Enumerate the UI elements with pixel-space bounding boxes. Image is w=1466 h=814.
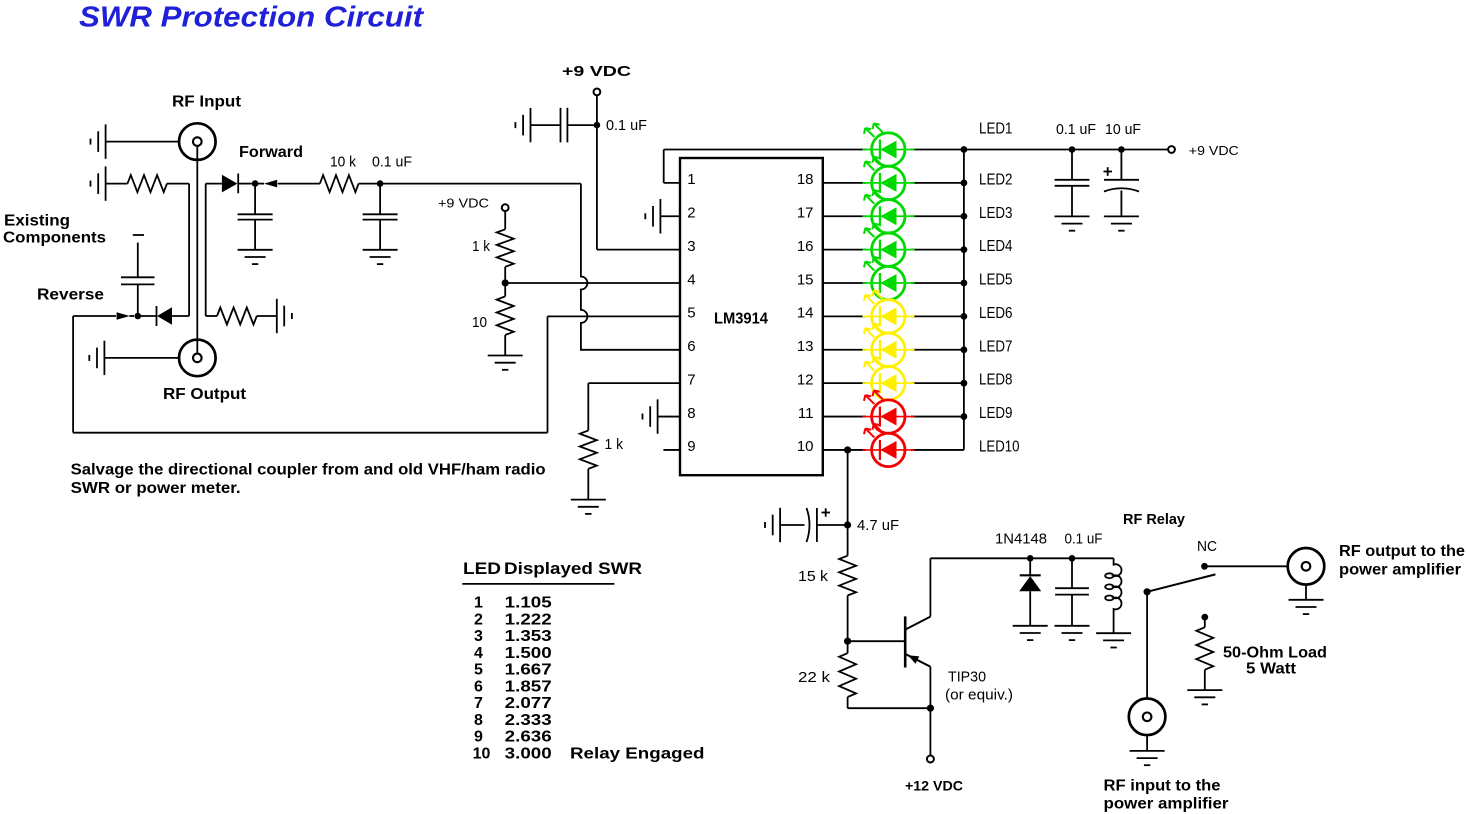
- svg-text:6: 6: [474, 678, 483, 695]
- svg-text:LED2: LED2: [979, 171, 1013, 188]
- svg-text:0.1 uF: 0.1 uF: [1065, 531, 1103, 548]
- svg-text:1: 1: [687, 171, 695, 188]
- svg-text:Displayed SWR: Displayed SWR: [504, 559, 642, 578]
- svg-text:Relay Engaged: Relay Engaged: [570, 745, 705, 762]
- svg-text:10 uF: 10 uF: [1105, 121, 1141, 138]
- svg-text:4: 4: [687, 271, 695, 288]
- svg-text:LED6: LED6: [979, 305, 1013, 322]
- svg-text:5: 5: [474, 662, 483, 679]
- svg-text:15 k: 15 k: [798, 568, 829, 585]
- svg-text:+9 VDC: +9 VDC: [1189, 143, 1239, 158]
- svg-text:RF input to the: RF input to the: [1104, 778, 1221, 795]
- svg-text:LED9: LED9: [979, 405, 1013, 422]
- svg-text:0.1 uF: 0.1 uF: [1056, 121, 1096, 138]
- svg-text:10: 10: [472, 314, 487, 331]
- svg-text:LED7: LED7: [979, 338, 1013, 355]
- svg-text:11: 11: [798, 405, 814, 422]
- svg-text:Forward: Forward: [239, 144, 303, 161]
- svg-text:10: 10: [473, 745, 491, 762]
- svg-text:Salvage the directional couple: Salvage the directional coupler from and…: [71, 462, 546, 479]
- svg-text:7: 7: [474, 695, 483, 712]
- svg-text:0.1 uF: 0.1 uF: [372, 154, 412, 171]
- svg-text:1.857: 1.857: [505, 678, 552, 695]
- svg-text:8: 8: [474, 712, 483, 729]
- svg-text:SWR or power meter.: SWR or power meter.: [71, 480, 241, 497]
- svg-text:4.7 uF: 4.7 uF: [857, 517, 899, 534]
- svg-text:8: 8: [687, 405, 695, 422]
- svg-text:2: 2: [687, 205, 695, 222]
- svg-text:7: 7: [687, 371, 695, 388]
- svg-text:1 k: 1 k: [605, 436, 624, 453]
- svg-text:power amplifier: power amplifier: [1339, 562, 1461, 579]
- svg-text:+12 VDC: +12 VDC: [905, 778, 963, 794]
- svg-text:13: 13: [797, 338, 814, 355]
- svg-text:RF Input: RF Input: [172, 94, 242, 111]
- svg-text:LED1: LED1: [979, 121, 1013, 138]
- svg-text:15: 15: [797, 271, 814, 288]
- svg-text:TIP30: TIP30: [948, 669, 986, 686]
- svg-text:Existing: Existing: [4, 213, 70, 230]
- svg-text:RF output to the: RF output to the: [1339, 543, 1465, 560]
- svg-text:10 k: 10 k: [330, 154, 356, 171]
- svg-text:1.105: 1.105: [505, 595, 552, 612]
- svg-text:0.1 uF: 0.1 uF: [606, 117, 647, 134]
- svg-text:LED: LED: [463, 559, 501, 578]
- svg-text:5: 5: [687, 305, 695, 322]
- svg-text:1: 1: [474, 595, 483, 612]
- svg-text:5 Watt: 5 Watt: [1246, 661, 1297, 678]
- svg-text:2.077: 2.077: [505, 695, 552, 712]
- svg-text:SWR Protection Circuit: SWR Protection Circuit: [79, 2, 424, 34]
- svg-text:LM3914: LM3914: [714, 311, 768, 328]
- svg-text:10: 10: [797, 438, 814, 455]
- svg-text:9: 9: [474, 729, 483, 746]
- svg-text:power amplifier: power amplifier: [1104, 796, 1229, 813]
- svg-text:1.500: 1.500: [505, 645, 552, 662]
- svg-text:RF Output: RF Output: [163, 386, 247, 403]
- svg-text:14: 14: [797, 305, 814, 322]
- svg-text:1.667: 1.667: [505, 662, 552, 679]
- svg-text:22 k: 22 k: [798, 669, 831, 686]
- svg-text:1.222: 1.222: [505, 611, 552, 628]
- svg-text:RF Relay: RF Relay: [1123, 511, 1186, 528]
- svg-text:2.636: 2.636: [505, 729, 552, 746]
- svg-text:NC: NC: [1197, 538, 1217, 555]
- svg-text:4: 4: [474, 645, 483, 662]
- svg-text:1N4148: 1N4148: [995, 531, 1047, 548]
- svg-text:9: 9: [687, 438, 695, 455]
- svg-text:50-Ohm Load: 50-Ohm Load: [1223, 645, 1327, 662]
- svg-text:2: 2: [474, 611, 483, 628]
- svg-text:LED8: LED8: [979, 372, 1013, 389]
- svg-text:2.333: 2.333: [505, 712, 552, 729]
- svg-text:16: 16: [797, 238, 814, 255]
- svg-text:Reverse: Reverse: [37, 287, 104, 304]
- svg-text:3.000: 3.000: [505, 745, 552, 762]
- svg-text:+9 VDC: +9 VDC: [438, 196, 489, 211]
- svg-text:1.353: 1.353: [505, 628, 552, 645]
- svg-text:Components: Components: [3, 230, 106, 247]
- svg-text:LED4: LED4: [979, 238, 1013, 255]
- svg-text:3: 3: [687, 238, 695, 255]
- svg-text:12: 12: [797, 371, 814, 388]
- svg-text:1 k: 1 k: [472, 238, 490, 255]
- svg-text:18: 18: [797, 171, 814, 188]
- svg-text:LED10: LED10: [979, 438, 1020, 455]
- svg-text:LED3: LED3: [979, 205, 1013, 222]
- svg-text:3: 3: [474, 628, 483, 645]
- svg-text:(or equiv.): (or equiv.): [945, 687, 1013, 704]
- svg-text:6: 6: [687, 338, 695, 355]
- svg-text:LED5: LED5: [979, 272, 1013, 289]
- svg-text:+9 VDC: +9 VDC: [562, 63, 631, 80]
- svg-text:17: 17: [797, 205, 814, 222]
